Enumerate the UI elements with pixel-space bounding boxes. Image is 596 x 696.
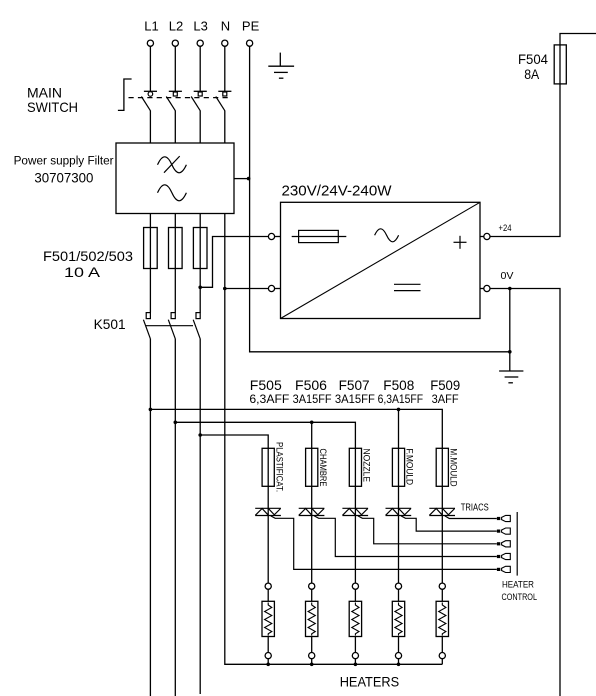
wire 0V to ground (509, 289, 511, 372)
main switch pole L1 (141, 91, 157, 110)
svg-text:PLASTIFICAT.: PLASTIFICAT. (274, 442, 284, 492)
wire N terminal to switch (224, 46, 226, 91)
svg-text:NOZZLE: NOZZLE (362, 449, 372, 483)
svg-text:F501/502/503: F501/502/503 (43, 248, 133, 264)
PSU input terminal 1 (268, 233, 274, 239)
wire heater 2 to return bus (311, 659, 313, 665)
heater 3 top terminal (352, 583, 358, 589)
stub output +24 (480, 236, 484, 238)
wire N to PSU input (225, 288, 269, 290)
wire L3 terminal to switch (199, 46, 201, 91)
wire triac Q1 gate to heater control (271, 516, 497, 570)
wire column 2 main (311, 448, 313, 583)
wire filter to PE (234, 178, 250, 180)
wire to heater 5 (441, 589, 443, 601)
stub output 0V (480, 288, 484, 290)
wire heater 4 bottom (398, 637, 400, 653)
wire to heater 2 (311, 589, 313, 601)
PSU plus sign (454, 236, 467, 249)
svg-text:L1: L1 (144, 19, 158, 34)
triac Q3 (342, 508, 368, 515)
wire filter L1 to fuse F501 and K501 (149, 214, 151, 313)
node PE (242, 19, 260, 47)
svg-text:Power supply Filter: Power supply Filter (14, 156, 114, 168)
wire to heater 1 (267, 589, 269, 601)
wire L2 bus to F506/F507 (175, 422, 355, 448)
junction L2 bus (174, 421, 178, 425)
svg-text:F505: F505 (250, 377, 282, 393)
svg-text:F507: F507 (339, 377, 370, 393)
heater control connector 1 (497, 515, 510, 521)
svg-text:230V/24V-240W: 230V/24V-240W (282, 183, 393, 200)
filter symbol sine (158, 185, 187, 201)
PSU sine symbol (375, 229, 399, 242)
K501 linkage (146, 325, 194, 327)
PSU internal fuse (292, 230, 347, 242)
wire heater 1 to return bus (267, 659, 269, 665)
fuse F501 (144, 228, 158, 269)
stub input 2 (275, 288, 281, 290)
fuse F504 (554, 45, 566, 84)
wire heater 3 to return bus (354, 659, 356, 665)
svg-text:0V: 0V (501, 271, 514, 282)
heater 1 top terminal (265, 583, 271, 589)
ground (0V earth symbol) (499, 371, 523, 383)
wire L2 terminal to switch (174, 46, 176, 91)
HEATER CONTROL label (502, 580, 538, 603)
junction heater 3 return (354, 663, 358, 667)
wire to heater 3 (354, 589, 356, 601)
wire L3 to PSU input (200, 237, 268, 288)
svg-text:CONTROL: CONTROL (502, 592, 538, 603)
fuse rating labels (249, 392, 458, 406)
heater element R3 (349, 601, 361, 636)
fuse F503 (193, 228, 207, 269)
filter symbol crossed sine (158, 156, 187, 173)
wire F508 drop (398, 409, 400, 448)
svg-text:3A15FF: 3A15FF (293, 392, 332, 406)
heater element R2 (306, 601, 318, 636)
main switch linkage (dashed) (129, 97, 229, 99)
heater control bracket (516, 512, 518, 576)
wire L3 phase down (199, 339, 201, 694)
wire N filter to heater return bus (225, 214, 442, 665)
wire switch N to filter (224, 111, 226, 144)
fuse F502 (169, 228, 183, 269)
junction L3/PSU (198, 286, 202, 290)
junction N/PSU (223, 287, 227, 291)
node N (221, 19, 230, 47)
PSU diagonal (281, 202, 481, 318)
svg-text:F504: F504 (518, 51, 548, 67)
main switch pole L2 (166, 91, 182, 110)
wire L2 phase down (174, 339, 176, 696)
junction L1 bus (149, 408, 153, 412)
filter label (14, 156, 114, 186)
power supply U1 box (281, 202, 481, 318)
svg-text:L2: L2 (169, 19, 183, 34)
heater element R1 (262, 601, 274, 636)
heater 3 bottom terminal (352, 653, 358, 659)
node L1 (144, 19, 158, 47)
junction L3 bus (198, 433, 202, 437)
wire column 3 main (354, 448, 356, 583)
svg-text:SWITCH: SWITCH (27, 99, 78, 115)
svg-text:8A: 8A (524, 66, 540, 82)
svg-text:M.MOULD: M.MOULD (449, 449, 459, 487)
heater element R4 (392, 601, 404, 636)
wire +24 to F504 and off-sheet (490, 34, 596, 237)
wire L1 bus to F508/F509 (150, 409, 442, 448)
junction F508 feed (397, 408, 401, 412)
svg-text:6,3AFF: 6,3AFF (249, 392, 289, 406)
wire 0V down right side (490, 289, 560, 696)
wire L3 bus to F505 (200, 435, 268, 448)
wire F506 drop (311, 422, 313, 448)
wire switch L3 to filter (199, 111, 201, 144)
wire triac Q4 gate to heater control (401, 516, 497, 531)
F504 label (518, 51, 548, 82)
wire heater 4 to return bus (398, 659, 400, 665)
wire heater 2 bottom (311, 637, 313, 653)
svg-text:PE: PE (242, 19, 260, 34)
wire column 5 main (441, 448, 443, 583)
svg-text:3A15FF: 3A15FF (335, 392, 375, 406)
wire triac Q3 gate to heater control (358, 516, 497, 544)
heater 2 top terminal (309, 583, 315, 589)
triac Q2 (299, 508, 325, 515)
heater control connector 3 (497, 541, 510, 547)
stub input 1 (275, 236, 281, 238)
heater control connector 2 (497, 528, 510, 534)
heater control connector 4 (497, 553, 510, 559)
junction 0V (508, 287, 512, 291)
junction F506 feed (310, 421, 314, 425)
PSU DC symbol (394, 284, 421, 290)
main switch actuator bracket (118, 79, 132, 110)
svg-text:L3: L3 (193, 19, 207, 34)
main switch pole N (216, 91, 232, 110)
PSU input terminal 2 (268, 285, 274, 291)
svg-text:F508: F508 (383, 377, 414, 393)
triac Q1 (255, 508, 281, 515)
fuse F506 body (306, 448, 318, 486)
wire triac Q5 gate to heater control (445, 516, 497, 519)
wire switch L1 to filter (149, 111, 151, 144)
heater 2 bottom terminal (309, 653, 315, 659)
wire heater 3 bottom (354, 637, 356, 653)
heater 4 bottom terminal (395, 653, 401, 659)
wire PE down and across to ground node (250, 46, 510, 352)
wire heater 5 bottom (441, 637, 443, 653)
svg-text:CHAMBRE: CHAMBRE (318, 449, 328, 487)
svg-text:F509: F509 (430, 377, 460, 393)
svg-text:F.MOULD: F.MOULD (405, 449, 415, 486)
svg-text:30707300: 30707300 (34, 170, 93, 186)
fuse F508 body (392, 448, 404, 486)
svg-text:K501: K501 (94, 316, 126, 332)
wire switch L2 to filter (174, 111, 176, 144)
svg-text:6,3A15FF: 6,3A15FF (378, 392, 424, 406)
contactor K501 pole L1 (143, 313, 150, 339)
contactor K501 pole L3 (193, 313, 200, 339)
wire triac Q2 gate to heater control (314, 516, 497, 557)
F501/502/503 label (43, 248, 133, 280)
main switch pole L3 (191, 91, 207, 110)
fuse F509 body (436, 448, 448, 486)
ground (PE earth symbol) (268, 53, 294, 79)
wire heater 1 bottom (267, 637, 269, 653)
svg-text:+24: +24 (499, 223, 512, 233)
wire column 4 main (398, 448, 400, 583)
heater control connector 5 (497, 566, 510, 572)
wire column 1 main (267, 448, 269, 583)
junction heater 4 return (397, 663, 401, 667)
wire L1 terminal to switch (149, 46, 151, 91)
junction heater 1 return (266, 663, 270, 667)
wire to heater 4 (398, 589, 400, 601)
fuse F507 body (349, 448, 361, 486)
power supply filter box (116, 143, 234, 214)
node L3 (193, 19, 207, 47)
wire filter L2 to fuse F502 and K501 (174, 214, 176, 313)
junction filter/PE (247, 177, 251, 181)
heater 4 top terminal (395, 583, 401, 589)
heater 5 bottom terminal (439, 653, 445, 659)
svg-text:F506: F506 (295, 377, 327, 393)
heater element R5 (436, 601, 448, 636)
fuse F505 body (262, 448, 274, 486)
wire L1 phase down (149, 339, 151, 696)
junction heater 2 return (310, 663, 314, 667)
PSU output +24 terminal (484, 233, 490, 239)
triac Q5 (429, 508, 455, 515)
PSU output 0V terminal (484, 285, 490, 291)
svg-text:TRIACS: TRIACS (461, 502, 489, 513)
node L2 (169, 19, 183, 47)
triac Q4 (386, 508, 412, 515)
F505-F509 labels (250, 377, 461, 393)
wire heater 5 to return bus (441, 659, 443, 665)
heater 5 top terminal (439, 583, 445, 589)
svg-text:3AFF: 3AFF (432, 392, 459, 406)
contactor K501 pole L2 (168, 313, 175, 339)
heater 1 bottom terminal (265, 653, 271, 659)
junction PE/0V ground (508, 350, 512, 354)
MAIN SWITCH label (27, 84, 78, 115)
svg-text:HEATERS: HEATERS (340, 673, 400, 689)
wire filter L3 to fuse F503 and K501 (199, 214, 201, 313)
svg-text:N: N (221, 19, 230, 34)
svg-text:10 A: 10 A (64, 264, 101, 280)
svg-text:HEATER: HEATER (502, 580, 534, 591)
